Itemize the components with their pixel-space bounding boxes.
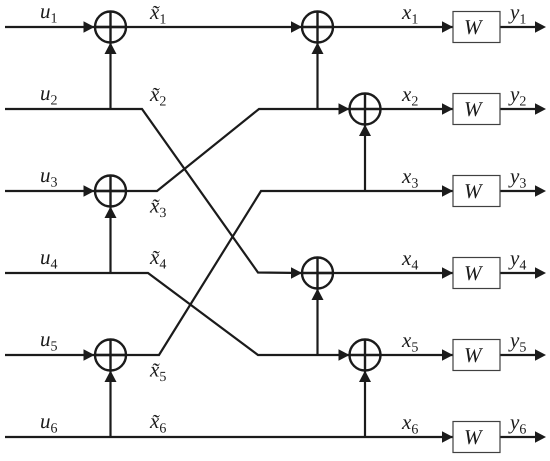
channel box W6 (453, 422, 500, 453)
label W3 (464, 179, 484, 203)
label W5 (464, 343, 484, 367)
arrowhead into XOR B2 left (339, 103, 350, 114)
svg-text:x̃3: x̃3 (149, 194, 166, 222)
label y5 (508, 328, 526, 356)
svg-text:x̃1: x̃1 (149, 0, 166, 28)
arrowhead into W1 (442, 21, 453, 32)
channel box W1 (453, 12, 500, 43)
label x~6 (149, 409, 166, 437)
wire row3 u3 to XOR A3, diagonal x~3 up to row2 into XOR B2 (5, 109, 350, 191)
wire vertical tap row6 to XOR B5 (364, 371, 366, 437)
XOR gate B5 row5 stage2 (350, 340, 381, 371)
label W6 (464, 425, 484, 449)
wire row5 W5 output y5 (500, 354, 538, 356)
channel box W5 (453, 340, 500, 371)
arrowhead up into XOR B5 bottom (359, 371, 371, 383)
XOR gate A1 row1 stage1 (95, 12, 126, 43)
svg-text:W: W (464, 343, 484, 367)
XOR gate B1 row1 stage2 (302, 12, 333, 43)
arrowhead output y4 (535, 267, 546, 278)
wire row1 XOR B1 to W1 (317, 26, 453, 28)
wire row4 u4 horizontal, diagonal x~4 down to row5 into XOR B5 (5, 273, 350, 355)
wire vertical row4 to XOR A3 (109, 207, 111, 273)
XOR gate A3 row3 stage1 (95, 176, 126, 207)
label y3 (508, 164, 526, 192)
wire row2 u2 horizontal, diagonal x~2 down to row4 XOR B4 input (5, 109, 302, 273)
label W1 (464, 15, 484, 39)
label u6 (40, 409, 58, 437)
label u5 (40, 327, 58, 355)
wire row2 W2 output y2 (500, 108, 538, 110)
svg-text:x̃6: x̃6 (149, 409, 166, 437)
wire row1 W1 output y1 (500, 26, 538, 28)
svg-text:y3: y3 (508, 164, 526, 192)
label y2 (508, 82, 526, 110)
label x~1 (149, 0, 166, 28)
label y6 (508, 410, 526, 438)
arrowhead into W5 (442, 349, 453, 360)
arrowhead u1 into XOR A1 (84, 21, 95, 32)
arrowhead into W4 (442, 267, 453, 278)
arrowhead output y2 (535, 103, 546, 114)
svg-text:y4: y4 (508, 246, 526, 274)
arrowhead into XOR B1 left (291, 21, 302, 32)
arrowhead into XOR B4 left (291, 267, 302, 278)
svg-text:W: W (464, 425, 484, 449)
wire vertical tap row3 to XOR B2 (364, 125, 366, 191)
svg-text:y1: y1 (508, 0, 526, 28)
label x~5 (149, 358, 166, 386)
channel box W4 (453, 258, 500, 289)
arrowhead up into XOR A3 bottom (105, 207, 117, 219)
label x6 (401, 410, 418, 438)
wire row6 u6 to W6 (5, 436, 453, 438)
label u2 (40, 81, 58, 109)
XOR gate B4 row4 stage2 (302, 258, 333, 289)
arrowhead up into XOR A1 bottom (105, 43, 117, 55)
svg-text:u2: u2 (40, 81, 58, 109)
label u1 (40, 0, 58, 27)
label x~3 (149, 194, 166, 222)
svg-text:y6: y6 (508, 410, 526, 438)
svg-text:x2: x2 (401, 82, 418, 110)
channel box W2 (453, 94, 500, 125)
XOR gate A5 row5 stage1 (95, 340, 126, 371)
wire row3 W3 output y3 (500, 190, 538, 192)
svg-text:u1: u1 (40, 0, 58, 27)
svg-text:x5: x5 (401, 328, 418, 356)
label y4 (508, 246, 526, 274)
svg-text:W: W (464, 179, 484, 203)
svg-text:u3: u3 (40, 163, 58, 191)
wire row1 u1 to XOR A1 and through to XOR B1 (5, 26, 302, 28)
svg-text:u5: u5 (40, 327, 58, 355)
arrowhead into W2 (442, 103, 453, 114)
svg-text:u4: u4 (40, 245, 58, 273)
channel box W3 (453, 176, 500, 207)
wire row4 XOR B4 to W4 (317, 272, 453, 274)
label W2 (464, 97, 484, 121)
wire row5 u5 to XOR A5, diagonal x~5 up to row3 to W3 (5, 191, 453, 355)
label x2 (401, 82, 418, 110)
wire row4 W4 output y4 (500, 272, 538, 274)
svg-text:W: W (464, 97, 484, 121)
label x1 (401, 0, 418, 28)
arrowhead into W6 (442, 431, 453, 442)
arrowhead up into XOR A5 bottom (105, 371, 117, 383)
svg-text:x3: x3 (401, 164, 418, 192)
svg-text:x6: x6 (401, 410, 418, 438)
wire row6 W6 output y6 (500, 436, 538, 438)
label x~2 (149, 82, 166, 110)
arrowhead output y1 (535, 21, 546, 32)
arrowhead up into XOR B2 bottom (359, 125, 371, 137)
svg-text:y2: y2 (508, 82, 526, 110)
arrowhead into XOR B5 left (339, 349, 350, 360)
arrowhead output y3 (535, 185, 546, 196)
label x3 (401, 164, 418, 192)
arrowhead u3 into XOR A3 (84, 185, 95, 196)
arrowhead output y5 (535, 349, 546, 360)
svg-text:u6: u6 (40, 409, 58, 437)
arrowhead output y6 (535, 431, 546, 442)
svg-text:x1: x1 (401, 0, 418, 28)
XOR gate B2 row2 stage2 (350, 94, 381, 125)
label W4 (464, 261, 484, 285)
svg-text:y5: y5 (508, 328, 526, 356)
svg-text:W: W (464, 15, 484, 39)
arrowhead u5 into XOR A5 (84, 349, 95, 360)
arrowhead up into XOR B4 bottom (312, 289, 324, 301)
label y1 (508, 0, 526, 28)
svg-text:x̃2: x̃2 (149, 82, 166, 110)
svg-text:x4: x4 (401, 246, 418, 274)
wire vertical row6 to XOR A5 (109, 371, 111, 437)
label x4 (401, 246, 418, 274)
arrowhead up into XOR B1 bottom (312, 43, 324, 55)
svg-text:W: W (464, 261, 484, 285)
wire vertical tap row5 to XOR B4 (316, 289, 318, 355)
wire vertical tap row2 to XOR B1 (316, 43, 318, 109)
svg-text:x̃4: x̃4 (149, 245, 166, 273)
label u3 (40, 163, 58, 191)
wire vertical row2 to XOR A1 (109, 43, 111, 109)
wire row2 XOR B2 to W2 (380, 108, 453, 110)
arrowhead into W3 (442, 185, 453, 196)
label x5 (401, 328, 418, 356)
wire row5 XOR B5 to W5 (380, 354, 453, 356)
label u4 (40, 245, 58, 273)
svg-text:x̃5: x̃5 (149, 358, 166, 386)
label x~4 (149, 245, 166, 273)
